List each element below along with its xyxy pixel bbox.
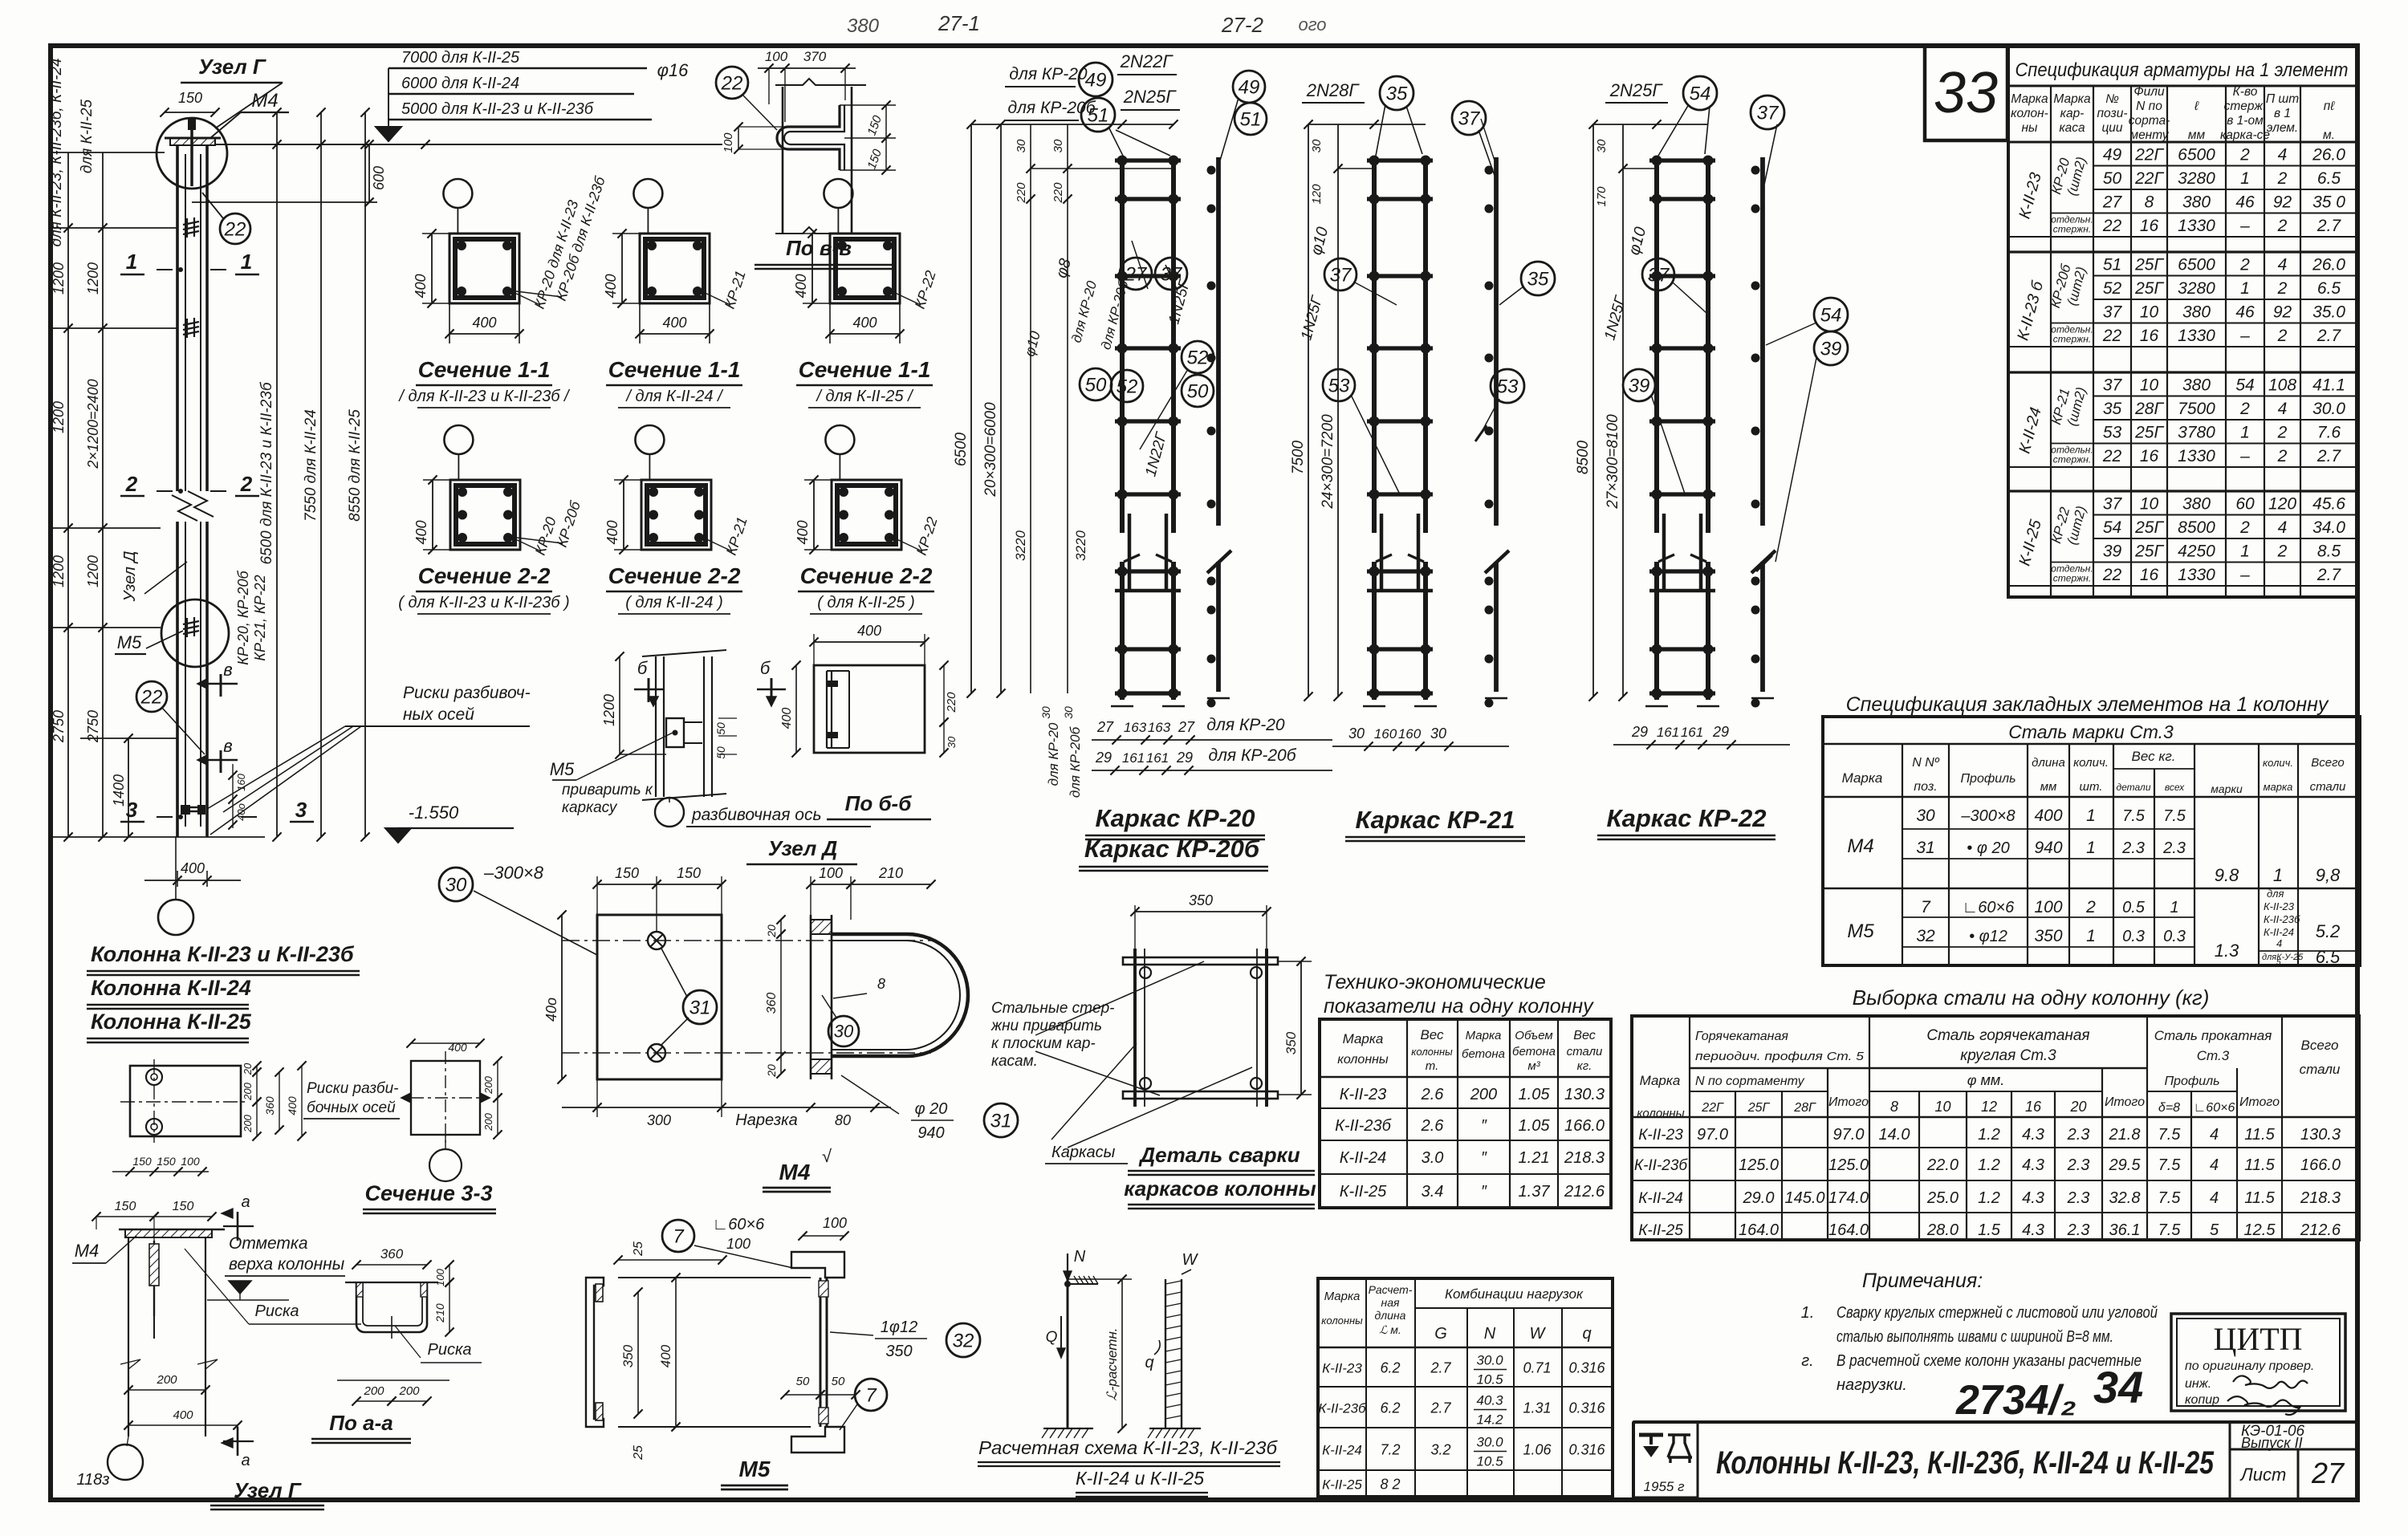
svg-text:Спецификация арматуры на 1 эле: Спецификация арматуры на 1 элемент — [2015, 59, 2349, 81]
table TE frame — [1320, 1019, 1611, 1208]
svg-text:К-II-23: К-II-23 — [1322, 1361, 1362, 1376]
svg-text:Профиль: Профиль — [1960, 772, 2015, 786]
svg-text:170: 170 — [1595, 186, 1609, 207]
svg-text:8: 8 — [877, 976, 885, 992]
callouts 49 51 for lone bar A — [1233, 71, 1265, 103]
section drawing 2-2 K-II-24 — [635, 425, 664, 454]
svg-text:–: – — [2239, 217, 2250, 235]
po v-v anchor rod inner — [784, 105, 844, 170]
svg-text:приварить к: приварить к — [562, 782, 653, 798]
svg-text:46: 46 — [2235, 193, 2255, 212]
svg-text:По б-б: По б-б — [845, 791, 913, 815]
svg-text:150: 150 — [173, 1200, 194, 1213]
svg-text:6500: 6500 — [2178, 256, 2215, 274]
svg-text:80: 80 — [835, 1112, 851, 1128]
logo box TD — [1633, 1422, 1698, 1497]
svg-text:поз.: поз. — [1914, 780, 1937, 794]
uzel D dim 1200 — [619, 656, 620, 754]
svg-text:ℒ м.: ℒ м. — [1379, 1323, 1401, 1336]
M4 plate dims left 400 — [561, 915, 563, 1079]
svg-text:4: 4 — [2276, 937, 2282, 949]
svg-text:стали: стали — [2310, 780, 2346, 794]
svg-text:52: 52 — [1117, 376, 1138, 397]
svg-text:Колонны К-II-23, К-II-23б, К-I: Колонны К-II-23, К-II-23б, К-II-24 и К-I… — [1716, 1445, 2215, 1481]
svg-text:Сталь прокатная: Сталь прокатная — [2154, 1028, 2272, 1043]
svg-text:( для К-II-24 ): ( для К-II-24 ) — [625, 594, 722, 612]
svg-text:Каркасы: Каркасы — [1051, 1144, 1116, 1161]
svg-text:Расчетная схема К-II-23, К-II-: Расчетная схема К-II-23, К-II-23б — [978, 1437, 1278, 1458]
svg-text:1.05: 1.05 — [1519, 1086, 1551, 1103]
svg-text:Колонна К-II-25: Колонна К-II-25 — [91, 1010, 252, 1034]
svg-text:верха колонны: верха колонны — [229, 1255, 345, 1274]
svg-text:для КР-20: для КР-20 — [1009, 65, 1088, 83]
svg-text:1: 1 — [2240, 424, 2250, 442]
svg-text:Фили: Фили — [2133, 85, 2165, 99]
embed mark hash 1 — [183, 221, 199, 225]
svg-text:1.2: 1.2 — [1978, 1126, 2000, 1144]
svg-text:5: 5 — [2276, 958, 2281, 967]
column break mark — [172, 495, 197, 521]
svg-text:10.5: 10.5 — [1476, 1372, 1503, 1388]
svg-text:4: 4 — [2210, 1156, 2219, 1174]
svg-text:1200: 1200 — [51, 555, 67, 587]
svg-text:22.0: 22.0 — [1926, 1156, 1959, 1174]
svg-text:Ст.3: Ст.3 — [2197, 1048, 2230, 1063]
svg-text:27: 27 — [1096, 719, 1114, 735]
svg-text:бочных осей: бочных осей — [307, 1099, 396, 1116]
svg-text:1.21: 1.21 — [1519, 1149, 1550, 1167]
detail svarki dim 350 top — [1135, 911, 1267, 912]
svg-text:К-II-25: К-II-25 — [1638, 1222, 1683, 1239]
svg-text:М4: М4 — [75, 1241, 100, 1261]
svg-text:400: 400 — [286, 1096, 299, 1115]
svg-text:2×1200=2400: 2×1200=2400 — [85, 379, 101, 469]
shema left column line — [1067, 1279, 1069, 1428]
shema W column — [1165, 1279, 1166, 1428]
svg-text:22: 22 — [140, 686, 163, 708]
svg-text:2.7: 2.7 — [2316, 217, 2342, 235]
svg-text:11.5: 11.5 — [2244, 1156, 2275, 1174]
svg-text:δ=8: δ=8 — [2158, 1101, 2180, 1115]
svg-text:К-II-23б: К-II-23б — [1634, 1157, 1689, 1174]
svg-text:32: 32 — [953, 1330, 974, 1351]
svg-text:45.6: 45.6 — [2312, 495, 2345, 514]
svg-text:50: 50 — [796, 1375, 810, 1388]
svg-text:164.0: 164.0 — [1739, 1221, 1779, 1239]
svg-text:Каркас КР-21: Каркас КР-21 — [1356, 806, 1515, 834]
svg-text:1400: 1400 — [111, 774, 127, 807]
svg-text:7: 7 — [673, 1225, 685, 1247]
callout 22 lower — [136, 681, 167, 712]
svg-text:1: 1 — [2170, 899, 2178, 916]
svg-text:кг.: кг. — [1577, 1059, 1592, 1073]
svg-text:1: 1 — [2086, 807, 2096, 825]
M5 circle on elevation — [161, 599, 229, 667]
svg-text:41.1: 41.1 — [2312, 376, 2345, 395]
section mark v lower — [220, 750, 222, 773]
svg-text:Каркас КР-20б: Каркас КР-20б — [1084, 835, 1260, 863]
svg-text:400: 400 — [658, 1344, 673, 1367]
M4 plate dims top 150 150 — [597, 884, 657, 885]
svg-text:2: 2 — [2239, 400, 2250, 418]
svg-text:22: 22 — [2102, 217, 2122, 235]
svg-text:160: 160 — [1374, 726, 1397, 742]
svg-text:Спецификация закладных элемент: Спецификация закладных элементов на 1 ко… — [1846, 693, 2329, 716]
svg-text:• φ 20: • φ 20 — [1967, 839, 2009, 857]
svg-text:20: 20 — [765, 924, 778, 938]
svg-text:колонны: колонны — [1637, 1107, 1684, 1120]
svg-text:Нарезка: Нарезка — [735, 1111, 797, 1129]
svg-text:√: √ — [822, 1146, 832, 1166]
svg-text:400: 400 — [413, 520, 429, 544]
svg-text:29: 29 — [1712, 724, 1729, 740]
single bar KR-20b hook — [1207, 551, 1231, 573]
svg-text:25Г: 25Г — [2134, 518, 2164, 537]
svg-text:5.2: 5.2 — [2316, 921, 2341, 941]
svg-text:125.0: 125.0 — [1739, 1156, 1779, 1174]
svg-text:400: 400 — [857, 623, 881, 639]
right chain 6500 — [276, 112, 278, 837]
svg-text:3280: 3280 — [2178, 279, 2215, 298]
svg-text:210: 210 — [878, 865, 903, 881]
svg-text:52: 52 — [2103, 279, 2122, 298]
svg-text:q: q — [1582, 1325, 1591, 1343]
M5 left channel — [586, 1278, 604, 1427]
svg-text:6.2: 6.2 — [1380, 1400, 1400, 1416]
svg-text:22Г: 22Г — [1701, 1101, 1724, 1115]
svg-text:27-2: 27-2 — [1221, 13, 1264, 37]
svg-text:2.3: 2.3 — [2162, 839, 2186, 857]
svg-text:100: 100 — [2034, 898, 2062, 916]
svg-text:350: 350 — [1189, 892, 1213, 908]
svg-text:∟60×6: ∟60×6 — [713, 1216, 766, 1233]
svg-text:К-II-25: К-II-25 — [1322, 1477, 1362, 1493]
svg-text:2734/₂: 2734/₂ — [1955, 1377, 2076, 1424]
svg-text:0.71: 0.71 — [1523, 1360, 1551, 1376]
svg-text:16: 16 — [2025, 1099, 2042, 1115]
svg-text:31: 31 — [689, 997, 711, 1018]
svg-text:10: 10 — [1934, 1099, 1950, 1115]
svg-text:N: N — [1074, 1248, 1086, 1266]
svg-text:50: 50 — [832, 1375, 845, 1388]
detail svarki dim 350 right — [1300, 961, 1302, 1095]
svg-text:29: 29 — [1095, 750, 1112, 766]
svg-text:30: 30 — [1916, 807, 1935, 825]
svg-text:200: 200 — [242, 1114, 254, 1132]
svg-text:24×300=7200: 24×300=7200 — [1320, 414, 1336, 510]
svg-text:Вес: Вес — [1420, 1027, 1444, 1042]
svg-text:34.0: 34.0 — [2312, 518, 2345, 537]
svg-text:350: 350 — [2034, 927, 2062, 945]
svg-text:9.8: 9.8 — [2215, 865, 2239, 885]
svg-text:164.0: 164.0 — [1828, 1221, 1869, 1239]
svg-text:детали: детали — [2116, 782, 2150, 793]
callout 22 top — [220, 213, 250, 244]
svg-text:37: 37 — [1648, 264, 1670, 286]
svg-text:54: 54 — [1690, 83, 1711, 104]
svg-text:25: 25 — [632, 1445, 645, 1461]
cage KR-21 rail bottom ticks — [1363, 705, 1385, 708]
section mark v upper — [220, 674, 222, 697]
svg-text:Всего: Всего — [2301, 1038, 2339, 1053]
svg-text:По а-а: По а-а — [329, 1411, 393, 1435]
svg-text:200: 200 — [242, 1082, 254, 1100]
uzel D M5 plate — [666, 718, 684, 747]
column body outline — [176, 144, 179, 491]
svg-text:по оригиналу провер.: по оригиналу провер. — [2185, 1359, 2314, 1373]
svg-text:элем.: элем. — [2267, 121, 2298, 135]
svg-text:100: 100 — [823, 1215, 847, 1231]
svg-text:29.5: 29.5 — [2109, 1156, 2142, 1174]
svg-text:218.3: 218.3 — [1564, 1149, 1605, 1167]
svg-text:35: 35 — [1386, 83, 1408, 104]
svg-text:400: 400 — [413, 274, 429, 298]
svg-text:32: 32 — [1916, 927, 1935, 945]
svg-text:″: ″ — [1481, 1183, 1487, 1201]
svg-text:–300×8: –300×8 — [1960, 807, 2015, 825]
svg-text:М5: М5 — [117, 632, 142, 652]
uzel G section a marks — [237, 1212, 239, 1241]
svg-text:стержн.: стержн. — [2053, 573, 2091, 584]
svg-text:М4: М4 — [251, 90, 278, 112]
svg-text:30.0: 30.0 — [1476, 1353, 1503, 1368]
svg-text:3780: 3780 — [2178, 424, 2215, 442]
svg-text:Каркас КР-20: Каркас КР-20 — [1096, 804, 1255, 832]
svg-text:200: 200 — [482, 1112, 494, 1131]
svg-text:для: для — [2267, 888, 2284, 900]
right chain 8550 — [364, 112, 366, 837]
svg-text:27: 27 — [1178, 719, 1195, 735]
svg-text:2: 2 — [2085, 898, 2096, 916]
svg-text:92: 92 — [2273, 303, 2292, 322]
svg-text:Сечение 1-1: Сечение 1-1 — [608, 357, 741, 382]
svg-text:1330: 1330 — [2178, 447, 2215, 465]
svg-text:37: 37 — [2103, 376, 2123, 395]
svg-text:212.6: 212.6 — [2300, 1221, 2341, 1239]
svg-text:150: 150 — [157, 1155, 176, 1168]
svg-text:39: 39 — [2103, 542, 2122, 561]
svg-text:4.3: 4.3 — [2022, 1189, 2044, 1207]
svg-text:колонны: колонны — [1411, 1046, 1453, 1058]
sechenie 3-3 dims right — [256, 1066, 258, 1072]
svg-text:Марка: Марка — [1640, 1073, 1681, 1088]
svg-text:Каркас КР-22: Каркас КР-22 — [1607, 804, 1767, 832]
svg-text:14.0: 14.0 — [1879, 1126, 1910, 1144]
svg-text:120: 120 — [1310, 184, 1324, 205]
svg-text:касам.: касам. — [991, 1053, 1038, 1070]
svg-text:разбивочная ось: разбивочная ось — [691, 806, 822, 824]
svg-text:2: 2 — [2277, 169, 2288, 188]
U-bolt dims 100 210 — [811, 884, 851, 885]
svg-text:8500: 8500 — [1575, 440, 1592, 474]
stamp signatures — [2233, 1375, 2308, 1388]
single bar KR-21 lone hook — [1485, 551, 1509, 573]
svg-text:6500: 6500 — [2178, 146, 2215, 165]
cage A left chains — [970, 124, 972, 693]
svg-text:К-II-23б: К-II-23б — [2264, 913, 2300, 925]
svg-text:1200: 1200 — [85, 262, 101, 295]
column top plate M4 — [170, 138, 215, 145]
svg-text:″: ″ — [1481, 1117, 1487, 1135]
U-bolt rod — [832, 934, 968, 1056]
svg-text:10: 10 — [2140, 376, 2159, 395]
svg-text:Комбинации нагрузок: Комбинации нагрузок — [1445, 1286, 1584, 1302]
svg-text:а: а — [241, 1452, 250, 1469]
svg-text:М4: М4 — [1847, 835, 1873, 857]
svg-text:Узел Д: Узел Д — [768, 836, 838, 860]
svg-text:длина: длина — [2032, 756, 2065, 770]
svg-text:Риски разби-: Риски разби- — [307, 1080, 398, 1097]
riski plan circle — [429, 1149, 462, 1181]
cage C top dims — [1593, 124, 1708, 125]
svg-text:всех: всех — [2165, 782, 2185, 793]
detail svarki leaders — [1035, 961, 1204, 1035]
svg-text:1330: 1330 — [2178, 217, 2215, 235]
svg-text:210: 210 — [433, 1303, 446, 1323]
M5 right rod and angles — [791, 1252, 844, 1278]
svg-text:22: 22 — [2102, 327, 2122, 345]
svg-text:2: 2 — [2277, 327, 2288, 345]
svg-text:м³: м³ — [1527, 1059, 1540, 1073]
svg-text:125.0: 125.0 — [1828, 1156, 1869, 1174]
svg-text:Стальные стер-: Стальные стер- — [991, 1000, 1114, 1017]
callout 31 bottom — [984, 1103, 1018, 1137]
M5 callout 32 — [946, 1323, 980, 1357]
svg-text:3: 3 — [126, 798, 138, 822]
svg-text:160: 160 — [235, 773, 247, 790]
svg-text:150: 150 — [178, 90, 202, 106]
table spec zakladnyh frame — [1823, 717, 2360, 965]
svg-text:г.: г. — [1801, 1352, 1813, 1370]
svg-text:К-II-23б: К-II-23б — [1335, 1117, 1391, 1135]
svg-text:166.0: 166.0 — [2300, 1156, 2341, 1174]
svg-text:1: 1 — [2086, 927, 2096, 945]
uzel G dims 150 150 — [96, 1216, 154, 1217]
uzel D axis circle — [655, 798, 684, 827]
svg-text:200: 200 — [363, 1384, 384, 1398]
svg-text:в: в — [223, 736, 232, 756]
svg-text:30: 30 — [1039, 706, 1052, 719]
svg-text:54: 54 — [1820, 304, 1842, 326]
svg-text:35: 35 — [2103, 400, 2122, 418]
svg-text:1: 1 — [2240, 169, 2250, 188]
svg-text:161: 161 — [1146, 750, 1169, 766]
svg-text:2: 2 — [240, 472, 253, 496]
svg-text:колич.: колич. — [2263, 757, 2293, 769]
svg-text:2N25Г: 2N25Г — [1609, 80, 1664, 100]
svg-text:5000 для К-II-23 и К-II-23б: 5000 для К-II-23 и К-II-23б — [401, 100, 594, 118]
svg-text:для К-II-25: для К-II-25 — [79, 99, 96, 173]
svg-text:колич.: колич. — [2073, 756, 2109, 770]
cage A top dim lines — [971, 124, 1173, 125]
svg-text:7.5: 7.5 — [2158, 1221, 2182, 1239]
table spec zakladnyh subtitle — [1823, 743, 2360, 746]
svg-text:колонны: колонны — [1337, 1053, 1389, 1067]
svg-text:1.5: 1.5 — [1978, 1221, 2001, 1239]
svg-text:30: 30 — [946, 736, 958, 748]
cage KR-21 rungs — [1367, 158, 1433, 162]
svg-text:200: 200 — [398, 1384, 420, 1398]
svg-text:7: 7 — [1921, 898, 1931, 916]
svg-text:2: 2 — [2277, 447, 2288, 465]
svg-text:-1.550: -1.550 — [409, 803, 459, 823]
svg-text:1: 1 — [2086, 839, 2096, 857]
svg-text:2: 2 — [2239, 256, 2250, 274]
svg-text:29: 29 — [1631, 724, 1648, 740]
po v-v column strip left edge — [782, 87, 784, 233]
svg-text:20: 20 — [2069, 1099, 2086, 1115]
svg-text:28Г: 28Г — [1793, 1101, 1816, 1115]
svg-text:6.2: 6.2 — [1380, 1360, 1400, 1376]
M5 plate body lines — [618, 1277, 811, 1278]
svg-text:К-II-24: К-II-24 — [1638, 1190, 1683, 1207]
svg-text:4.3: 4.3 — [2022, 1126, 2044, 1144]
svg-text:4: 4 — [2278, 146, 2288, 165]
svg-text:для КР-20: для КР-20 — [1046, 722, 1061, 786]
svg-text:212.6: 212.6 — [1564, 1183, 1605, 1201]
cage KR-20 rail bottom ticks — [1111, 705, 1133, 708]
svg-text:400: 400 — [780, 708, 794, 729]
svg-text:31: 31 — [1916, 839, 1934, 857]
svg-text:8.5: 8.5 — [2317, 542, 2341, 561]
svg-text:37: 37 — [2103, 303, 2123, 322]
svg-text:колон-: колон- — [2011, 107, 2048, 120]
svg-text:бетона: бетона — [1512, 1045, 1556, 1058]
cage A bottom dims row1 — [1092, 739, 1332, 741]
svg-text:400: 400 — [793, 274, 809, 298]
svg-text:4: 4 — [2278, 400, 2288, 418]
svg-text:7: 7 — [865, 1384, 877, 1406]
svg-text:М5: М5 — [550, 759, 575, 779]
column top anchor bolt — [190, 120, 193, 186]
svg-text:30: 30 — [834, 1022, 854, 1042]
svg-text:–300×8: –300×8 — [483, 863, 544, 883]
svg-text:Колонна К-II-23 и К-II-23б: Колонна К-II-23 и К-II-23б — [91, 942, 355, 966]
svg-text:30: 30 — [1595, 139, 1609, 152]
svg-text:1φ12: 1φ12 — [881, 1319, 917, 1336]
svg-text:30: 30 — [1051, 139, 1065, 152]
svg-text:3280: 3280 — [2178, 169, 2215, 188]
svg-text:мм: мм — [2040, 780, 2057, 794]
sechenie 3-3 plate — [130, 1066, 241, 1136]
svg-text:q: q — [1145, 1354, 1153, 1371]
cage B chains — [1308, 124, 1309, 697]
cage KR-22 left rail — [1654, 157, 1659, 533]
svg-text:8: 8 — [1890, 1099, 1898, 1115]
svg-text:2.7: 2.7 — [2316, 327, 2342, 345]
svg-text:50: 50 — [2103, 169, 2122, 188]
svg-text:200: 200 — [1470, 1086, 1497, 1103]
svg-text:150: 150 — [677, 865, 701, 881]
svg-text:периодич. профиля Ст. 5: периодич. профиля Ст. 5 — [1695, 1050, 1865, 1063]
svg-text:( для К-II-23 и К-II-23б ): ( для К-II-23 и К-II-23б ) — [398, 594, 569, 612]
svg-text:Q: Q — [1046, 1329, 1058, 1346]
svg-text:6.5: 6.5 — [2316, 947, 2341, 967]
svg-text:30: 30 — [445, 874, 467, 896]
svg-text:2.3: 2.3 — [2067, 1156, 2090, 1174]
U-bolt dim chain 20 360 20 — [780, 920, 782, 934]
svg-text:4: 4 — [2278, 256, 2288, 274]
M5 callout 7 top — [662, 1220, 694, 1252]
svg-text:34: 34 — [2093, 1362, 2143, 1412]
svg-text:0.5: 0.5 — [2122, 899, 2146, 916]
svg-text:3.0: 3.0 — [1422, 1149, 1444, 1167]
svg-text:2.7: 2.7 — [2316, 447, 2342, 465]
svg-text:2: 2 — [2277, 542, 2288, 561]
svg-text:49: 49 — [1085, 69, 1107, 91]
svg-text:N по: N по — [2136, 100, 2162, 113]
uzel G axis circle — [108, 1445, 143, 1480]
